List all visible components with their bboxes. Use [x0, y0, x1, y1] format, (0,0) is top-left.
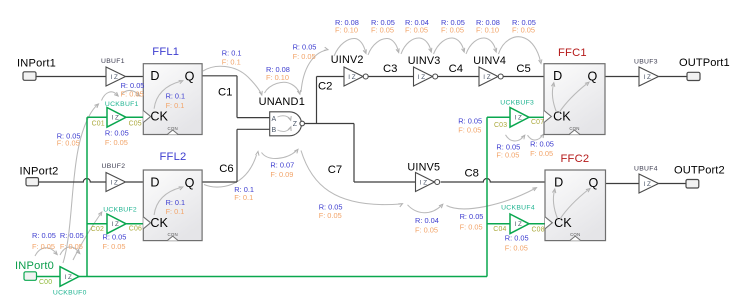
svg-text:F: 0.05: F: 0.05: [371, 26, 394, 35]
svg-text:R: 0.1: R: 0.1: [166, 92, 185, 101]
svg-text:D: D: [554, 175, 563, 189]
svg-text:I Z: I Z: [420, 179, 427, 186]
svg-text:R: 0.05: R: 0.05: [60, 231, 84, 240]
svg-text:FFC2: FFC2: [561, 153, 590, 165]
svg-text:C01: C01: [92, 121, 105, 128]
svg-text:F: 0.1: F: 0.1: [222, 58, 241, 67]
svg-text:F: 0.05: F: 0.05: [319, 211, 342, 220]
svg-text:F: 0.1: F: 0.1: [166, 207, 185, 216]
svg-text:CK: CK: [150, 110, 168, 124]
svg-text:I Z: I Z: [111, 179, 118, 186]
svg-text:Z: Z: [293, 121, 298, 128]
svg-text:F: 0.05: F: 0.05: [530, 149, 553, 158]
svg-text:R: 0.07: R: 0.07: [270, 160, 294, 169]
svg-text:C1: C1: [218, 87, 232, 99]
svg-text:Q: Q: [185, 176, 195, 190]
svg-text:F: 0.05: F: 0.05: [57, 139, 80, 148]
svg-text:FFC1: FFC1: [558, 47, 587, 59]
svg-text:UBUF3: UBUF3: [634, 58, 658, 65]
svg-text:F: 0.05: F: 0.05: [415, 225, 438, 234]
svg-text:UBUF1: UBUF1: [101, 58, 125, 65]
svg-text:I Z: I Z: [644, 74, 651, 81]
svg-text:C04: C04: [493, 226, 506, 233]
svg-text:C7: C7: [328, 164, 342, 176]
svg-text:F: 0.05: F: 0.05: [105, 138, 128, 147]
svg-text:F: 0.05: F: 0.05: [103, 242, 126, 251]
svg-text:C3: C3: [383, 63, 397, 75]
svg-text:I Z: I Z: [112, 221, 119, 228]
svg-text:F: 0.10: F: 0.10: [335, 26, 358, 35]
svg-text:R: 0.05: R: 0.05: [319, 202, 343, 211]
svg-text:D: D: [553, 69, 562, 83]
svg-text:UCKBUF0: UCKBUF0: [53, 290, 87, 297]
svg-text:C5: C5: [516, 63, 530, 75]
svg-text:UNAND1: UNAND1: [259, 96, 305, 108]
svg-text:F: 0.10: F: 0.10: [266, 73, 289, 82]
svg-text:INPort0: INPort0: [15, 260, 54, 272]
svg-text:R: 0.05: R: 0.05: [505, 234, 529, 243]
svg-text:R: 0.05: R: 0.05: [293, 42, 317, 51]
svg-text:UCKBUF2: UCKBUF2: [103, 206, 137, 213]
svg-text:C07: C07: [531, 119, 544, 126]
svg-text:C4: C4: [449, 63, 463, 75]
svg-text:I Z: I Z: [111, 74, 118, 81]
svg-text:F: 0.05: F: 0.05: [405, 26, 428, 35]
svg-text:R: 0.05: R: 0.05: [105, 128, 129, 137]
svg-text:F: 0.05: F: 0.05: [32, 242, 55, 251]
svg-text:C03: C03: [494, 122, 507, 129]
svg-text:F: 0.05: F: 0.05: [441, 26, 464, 35]
svg-text:UCKBUF3: UCKBUF3: [500, 100, 534, 107]
svg-text:F: 0.05: F: 0.05: [293, 52, 316, 61]
svg-text:R: 0.04: R: 0.04: [415, 216, 439, 225]
svg-text:I Z: I Z: [515, 115, 522, 122]
svg-text:R: 0.05: R: 0.05: [530, 139, 554, 148]
svg-text:I Z: I Z: [515, 221, 522, 228]
svg-text:I Z: I Z: [65, 274, 72, 281]
svg-text:R: 0.05: R: 0.05: [121, 81, 145, 90]
svg-text:D: D: [150, 69, 159, 83]
svg-text:C8: C8: [465, 168, 479, 180]
svg-text:I Z: I Z: [418, 74, 425, 81]
svg-text:F: 0.05: F: 0.05: [458, 126, 481, 135]
svg-text:F: 0.1: F: 0.1: [234, 193, 253, 202]
svg-text:F: 0.05: F: 0.05: [496, 150, 519, 159]
svg-text:CK: CK: [150, 216, 168, 230]
svg-text:R: 0.05: R: 0.05: [458, 117, 482, 126]
svg-text:F: 0.05: F: 0.05: [121, 90, 144, 99]
svg-text:F: 0.1: F: 0.1: [166, 101, 185, 110]
svg-text:R: 0.1: R: 0.1: [166, 198, 185, 207]
svg-text:UINV2: UINV2: [331, 54, 364, 66]
svg-text:UINV5: UINV5: [407, 161, 440, 173]
svg-text:I Z: I Z: [644, 181, 651, 188]
svg-text:R: 0.05: R: 0.05: [32, 231, 56, 240]
svg-text:UCKBUF4: UCKBUF4: [501, 204, 535, 211]
svg-text:OUTPort2: OUTPort2: [674, 165, 725, 177]
svg-text:INPort2: INPort2: [20, 165, 59, 177]
svg-text:Q: Q: [185, 70, 195, 84]
svg-text:C6: C6: [219, 163, 233, 175]
svg-text:UINV3: UINV3: [408, 55, 441, 67]
svg-text:FFL1: FFL1: [152, 46, 179, 58]
svg-text:C05: C05: [129, 121, 142, 128]
svg-text:C2: C2: [318, 81, 332, 93]
svg-text:F: 0.10: F: 0.10: [476, 26, 499, 35]
svg-text:FFL2: FFL2: [160, 151, 187, 163]
svg-text:INPort1: INPort1: [17, 57, 56, 69]
svg-text:OUTPort1: OUTPort1: [679, 57, 730, 69]
svg-text:A: A: [272, 116, 277, 123]
svg-text:F: 0.09: F: 0.09: [270, 170, 293, 179]
svg-text:UBUF4: UBUF4: [634, 165, 658, 172]
svg-text:R: 0.1: R: 0.1: [222, 49, 242, 58]
svg-text:I Z: I Z: [112, 115, 119, 122]
svg-text:C08: C08: [532, 226, 545, 233]
svg-text:F: 0.05: F: 0.05: [460, 223, 483, 232]
svg-text:UINV4: UINV4: [473, 55, 506, 67]
svg-text:UBUF2: UBUF2: [102, 163, 126, 170]
svg-text:Q: Q: [588, 70, 598, 84]
svg-text:F: 0.05: F: 0.05: [505, 244, 528, 253]
svg-text:Q: Q: [589, 176, 599, 190]
svg-text:UCKBUF1: UCKBUF1: [105, 101, 139, 108]
svg-text:F: 0.05: F: 0.05: [512, 26, 535, 35]
svg-text:I Z: I Z: [483, 74, 490, 81]
svg-text:C00: C00: [39, 279, 52, 286]
svg-text:B: B: [272, 127, 277, 134]
svg-text:D: D: [150, 175, 159, 189]
svg-text:I Z: I Z: [348, 74, 355, 81]
svg-text:F: 0.05: F: 0.05: [60, 242, 83, 251]
svg-text:R: 0.05: R: 0.05: [103, 233, 127, 242]
svg-text:C06: C06: [129, 225, 142, 232]
svg-text:R: 0.05: R: 0.05: [460, 212, 484, 221]
